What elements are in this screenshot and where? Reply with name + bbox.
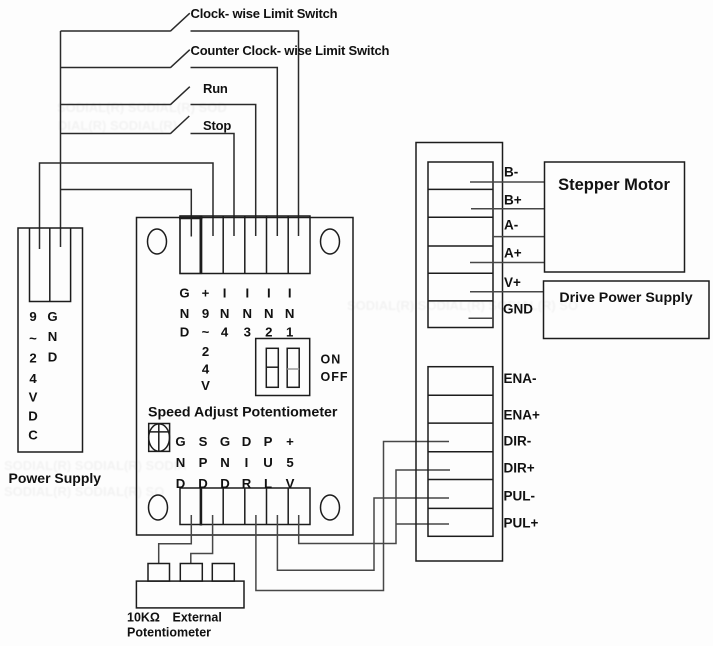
- svg-text:2: 2: [29, 351, 36, 366]
- svg-text:G: G: [47, 309, 57, 324]
- svg-text:4: 4: [202, 362, 210, 377]
- svg-text:~: ~: [202, 325, 210, 340]
- svg-text:DIR+: DIR+: [504, 461, 535, 476]
- svg-text:D: D: [198, 476, 208, 491]
- svg-text:N: N: [48, 329, 58, 344]
- svg-text:Stop: Stop: [203, 118, 231, 133]
- svg-text:+: +: [286, 434, 294, 449]
- svg-text:N: N: [176, 455, 186, 470]
- svg-text:Run: Run: [203, 81, 228, 96]
- svg-text:L: L: [264, 476, 272, 491]
- svg-text:4: 4: [29, 371, 37, 386]
- svg-text:SODIAL(R) SODIAL(R) SOD: SODIAL(R) SODIAL(R) SOD: [57, 100, 227, 115]
- svg-text:P: P: [264, 434, 273, 449]
- svg-text:I: I: [288, 286, 292, 301]
- svg-text:1: 1: [286, 325, 293, 340]
- svg-text:N: N: [285, 306, 295, 321]
- svg-text:B-: B-: [504, 165, 518, 180]
- svg-text:Counter Clock- wise Limit Swit: Counter Clock- wise Limit Switch: [191, 43, 390, 58]
- svg-text:Clock- wise Limit Switch: Clock- wise Limit Switch: [191, 6, 338, 21]
- svg-text:B+: B+: [504, 192, 522, 207]
- svg-text:9: 9: [202, 306, 209, 321]
- svg-text:A+: A+: [504, 245, 522, 260]
- svg-text:DIR-: DIR-: [504, 434, 532, 449]
- svg-text:I: I: [223, 286, 227, 301]
- svg-text:N: N: [264, 306, 274, 321]
- svg-text:C: C: [28, 428, 38, 443]
- svg-text:G: G: [175, 434, 185, 449]
- svg-text:SODIAL(R) SODIAL(R) SO: SODIAL(R) SODIAL(R) SO: [4, 484, 164, 499]
- svg-text:2: 2: [265, 325, 272, 340]
- svg-text:D: D: [48, 350, 58, 365]
- svg-text:OFF: OFF: [321, 370, 349, 384]
- svg-text:3: 3: [244, 325, 251, 340]
- svg-text:D: D: [176, 476, 186, 491]
- svg-text:D: D: [28, 409, 38, 424]
- svg-text:Drive Power Supply: Drive Power Supply: [559, 290, 692, 306]
- svg-text:~: ~: [29, 331, 37, 346]
- svg-text:R: R: [242, 476, 252, 491]
- svg-text:S: S: [199, 434, 208, 449]
- svg-text:G: G: [220, 434, 230, 449]
- svg-text:N: N: [220, 306, 230, 321]
- svg-text:N: N: [243, 306, 253, 321]
- svg-text:PUL+: PUL+: [504, 516, 539, 531]
- svg-text:Power Supply: Power Supply: [9, 470, 102, 486]
- svg-text:2: 2: [202, 344, 209, 359]
- svg-text:ENA+: ENA+: [504, 408, 541, 423]
- svg-text:I: I: [267, 286, 271, 301]
- svg-text:V: V: [29, 390, 38, 405]
- svg-text:10KΩ: 10KΩ: [127, 611, 160, 625]
- svg-text:GND: GND: [503, 302, 533, 317]
- svg-text:G: G: [179, 286, 189, 301]
- svg-text:4: 4: [221, 325, 229, 340]
- svg-text:ENA-: ENA-: [504, 371, 537, 386]
- svg-text:V: V: [201, 378, 210, 393]
- svg-text:U: U: [263, 455, 273, 470]
- svg-text:A-: A-: [504, 218, 518, 233]
- svg-text:+: +: [202, 286, 210, 301]
- svg-text:Stepper Motor: Stepper Motor: [558, 176, 670, 194]
- svg-text:External: External: [173, 611, 222, 625]
- svg-text:N: N: [220, 455, 230, 470]
- svg-text:9: 9: [29, 309, 36, 324]
- svg-text:ON: ON: [321, 353, 342, 367]
- svg-text:N: N: [180, 306, 190, 321]
- svg-text:PUL-: PUL-: [504, 488, 536, 503]
- svg-text:D: D: [220, 476, 230, 491]
- svg-text:DIAL(R) SODIAL(R): DIAL(R) SODIAL(R): [58, 118, 177, 133]
- svg-text:D: D: [180, 325, 190, 340]
- svg-text:5: 5: [286, 455, 293, 470]
- svg-text:P: P: [199, 455, 208, 470]
- svg-text:I: I: [245, 455, 249, 470]
- svg-text:Speed Adjust Potentiometer: Speed Adjust Potentiometer: [148, 405, 338, 421]
- svg-text:I: I: [245, 286, 249, 301]
- svg-text:D: D: [242, 434, 252, 449]
- svg-text:Potentiometer: Potentiometer: [127, 626, 211, 640]
- svg-text:V: V: [286, 476, 295, 491]
- svg-text:V+: V+: [504, 275, 521, 290]
